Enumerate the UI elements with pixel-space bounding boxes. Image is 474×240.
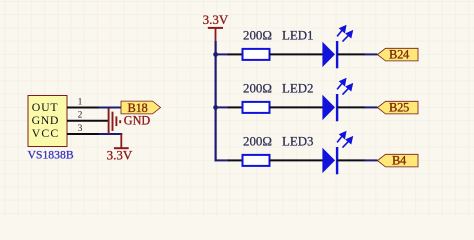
pin 1 (OUT) wire	[67, 97, 122, 107]
svg-text:LED2: LED2	[282, 82, 314, 96]
svg-text:3.3V: 3.3V	[203, 12, 229, 27]
wire LED1 to B24	[337, 53, 365, 55]
wire rail to R3	[215, 159, 230, 161]
wire vertical rail	[215, 41, 217, 161]
wire LED3 to B4	[337, 159, 365, 161]
power 3.3V (pin 3)	[107, 134, 133, 163]
LED3	[282, 132, 352, 174]
resistor R3 200Ω	[243, 135, 272, 166]
svg-text:GND: GND	[32, 113, 59, 127]
svg-text:LED3: LED3	[282, 135, 314, 149]
LED1	[282, 26, 352, 68]
wire rail to R2	[216, 106, 229, 108]
svg-text:1: 1	[78, 97, 83, 107]
svg-text:OUT: OUT	[32, 100, 59, 114]
port B25	[378, 101, 419, 115]
wire R1 to LED1	[270, 53, 323, 55]
svg-text:LED1: LED1	[282, 29, 314, 43]
port B24	[378, 48, 419, 62]
LED2	[282, 79, 352, 121]
wire R3 to LED3	[270, 159, 323, 161]
port B4	[378, 154, 419, 168]
svg-text:B24: B24	[389, 48, 410, 62]
svg-text:200Ω: 200Ω	[243, 135, 272, 149]
pin 3 (VCC) wire	[67, 124, 122, 134]
resistor R2 200Ω	[243, 82, 272, 113]
svg-text:GND: GND	[124, 114, 151, 128]
resistor R1 200Ω	[243, 29, 272, 60]
svg-text:3.3V: 3.3V	[107, 148, 133, 163]
svg-text:VCC: VCC	[32, 126, 60, 140]
wire rail to R1	[216, 53, 229, 55]
power 3.3V (top rail)	[203, 12, 229, 41]
wire R2 to LED2	[270, 106, 323, 108]
svg-text:200Ω: 200Ω	[243, 29, 272, 43]
svg-text:3: 3	[78, 124, 83, 134]
junction row2	[213, 105, 218, 110]
pin 2 (GND) wire	[67, 110, 108, 120]
svg-text:B25: B25	[389, 101, 409, 115]
wire LED2 to B25	[337, 106, 365, 108]
svg-text:B4: B4	[392, 154, 407, 168]
svg-text:VS1838B: VS1838B	[28, 148, 74, 161]
ground symbol (pin 2)	[109, 108, 121, 134]
svg-text:200Ω: 200Ω	[243, 82, 272, 96]
port B18	[121, 101, 161, 115]
svg-text:2: 2	[78, 110, 83, 120]
IC U1 VS1838B body	[28, 96, 67, 147]
junction row1	[213, 52, 218, 57]
